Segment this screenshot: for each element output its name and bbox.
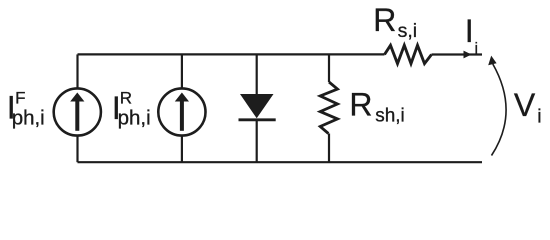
svg-text:R: R [349,87,372,123]
svg-text:R: R [373,2,396,38]
svg-text:s,i: s,i [398,20,418,42]
svg-text:i: i [475,41,479,58]
svg-text:V: V [514,87,536,123]
svg-text:F: F [15,89,25,108]
svg-text:I: I [465,13,474,49]
svg-text:i: i [537,105,541,127]
svg-text:R: R [120,89,132,108]
svg-text:ph,i: ph,i [118,106,151,129]
svg-text:ph,i: ph,i [12,106,45,129]
svg-text:sh,i: sh,i [375,106,405,127]
